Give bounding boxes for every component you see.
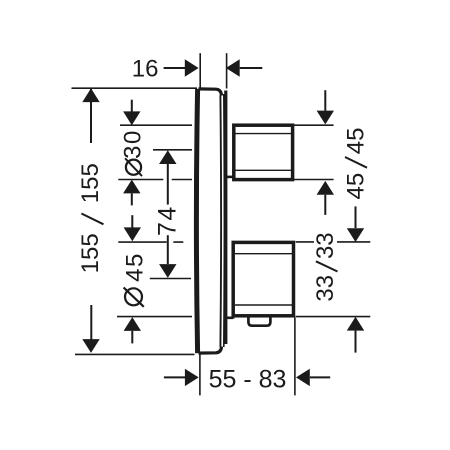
svg-text:74: 74 [154, 205, 182, 236]
top knob body [234, 125, 293, 179]
svg-text:155: 155 [77, 163, 104, 203]
svg-text:45: 45 [121, 252, 148, 282]
plate bottom extension line [75, 353, 195, 355]
bottom knob top extension line right [296, 241, 371, 243]
bottom knob body [233, 242, 293, 315]
svg-text:45: 45 [343, 173, 370, 200]
svg-text:16: 16 [132, 56, 159, 83]
dimension O45 line [131, 215, 133, 227]
top knob top extension line right [293, 124, 334, 126]
label 155 / 155 slash [81, 214, 103, 225]
knob collar line at wall [224, 91, 227, 345]
svg-text:45: 45 [343, 128, 370, 155]
label 33 /33 slash [316, 261, 338, 271]
svg-text:30: 30 [119, 129, 146, 159]
svg-text:33: 33 [312, 232, 339, 259]
dimension 16 arrows [164, 67, 185, 69]
top knob bottom extension line left [118, 179, 192, 181]
bottom knob axis extension line [150, 278, 191, 280]
escutcheon plate bottom cap [199, 347, 222, 354]
bottom knob bottom extension line right [296, 316, 371, 318]
label O 45 diameter symbol [125, 288, 142, 305]
top knob base step [225, 176, 234, 179]
plate bottom vertical extension line (55-83 left) [199, 353, 201, 396]
dimension 55-83 arrows [164, 376, 185, 378]
top knob bottom extension line right [293, 179, 334, 181]
dimension 155/155 line [90, 88, 92, 143]
escutcheon plate top cap [199, 89, 222, 96]
safety stop tab [248, 316, 270, 325]
bottom knob bottom extension line left [117, 316, 192, 318]
svg-text:33: 33 [312, 275, 339, 302]
top knob top extension line left [120, 124, 192, 126]
wall vertical extension line (16 dim, right) [226, 53, 228, 88]
svg-text:155: 155 [77, 233, 104, 273]
knob front vertical extension line (55-83 right) [294, 318, 296, 396]
plate top extension line [72, 87, 198, 89]
bottom knob base step [225, 316, 233, 319]
label 45 /45 slash [345, 157, 367, 168]
svg-text:55 - 83: 55 - 83 [209, 365, 287, 393]
dimension 74 line [159, 150, 176, 164]
bottom knob chamfer lines [235, 254, 292, 305]
label O30 diameter symbol [126, 160, 141, 175]
dimension 33/33 line [355, 206, 357, 228]
escutcheon plate front edge [196, 89, 197, 353]
top knob axis extension line [153, 149, 192, 151]
dimension 45/45 line [324, 90, 326, 111]
top knob chamfer lines [236, 134, 292, 171]
bottom knob top extension line left [118, 241, 183, 243]
dimension O30 line [131, 100, 133, 112]
escutcheon plate right contour [219, 95, 222, 347]
escutcheon plate back contour [223, 94, 226, 347]
plate front vertical extension line (16 dim, left) [199, 53, 201, 88]
